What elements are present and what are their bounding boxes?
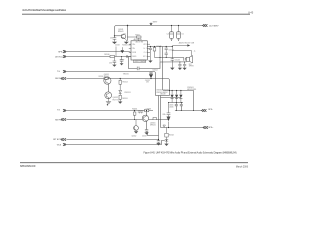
ground net symbol — [163, 125, 166, 127]
svg-text:R0561: R0561 — [132, 108, 137, 110]
ground — [183, 68, 187, 70]
transistor Q0531 — [121, 34, 126, 39]
capacitor C0536 — [113, 58, 117, 65]
transistor Q0552 — [105, 92, 112, 99]
wire bundle H2 — [156, 95, 170, 97]
header rule — [22, 13, 250, 15]
wire output bus right of U0531 — [147, 46, 172, 48]
wire stub — [115, 47, 117, 57]
svg-text:TG: TG — [57, 110, 60, 112]
transistor Q0561 — [142, 115, 148, 121]
svg-text:R0536: R0536 — [104, 54, 109, 56]
ground — [178, 68, 182, 70]
capacitor C0563 — [138, 111, 141, 114]
connector J2 pin row6 — [61, 118, 66, 121]
svg-text:J2-9 SB9V: J2-9 SB9V — [209, 25, 219, 27]
wire Q0551-Q0552 — [108, 85, 110, 92]
wire step from lower circuit — [148, 132, 159, 136]
svg-text:SPKR: SPKR — [189, 66, 195, 68]
connector J2 pin row5 — [63, 109, 66, 112]
svg-text:March 2006: March 2006 — [236, 166, 249, 169]
svg-text:VR0531: VR0531 — [123, 73, 129, 75]
diode CR0561 — [171, 91, 173, 103]
ground — [134, 131, 138, 133]
footer rule — [20, 162, 248, 164]
svg-text:Figure 8-45. UHF 403-470 MHz: Figure 8-45. UHF 403-470 MHz Audio PA an… — [144, 152, 237, 155]
svg-text:C5: C5 — [181, 34, 183, 36]
ground — [118, 102, 122, 104]
capacitor C0564 — [140, 111, 143, 114]
diode CR0562 — [176, 91, 178, 103]
svg-text:8-45: 8-45 — [248, 11, 253, 14]
capacitor C0569 — [165, 140, 168, 143]
ground — [106, 98, 111, 104]
svg-text:M9641: M9641 — [118, 31, 124, 33]
connector J2 pin row4 — [61, 77, 66, 80]
wire speaker feed rowA — [175, 110, 202, 112]
svg-text:C68+: C68+ — [162, 114, 166, 116]
svg-text:R0532 100K: R0532 100K — [122, 45, 132, 47]
capacitor C0542 — [165, 47, 168, 58]
resistor R0563 series — [145, 109, 149, 112]
svg-text:TG: TG — [57, 71, 60, 73]
svg-text:C0565: C0565 — [169, 105, 174, 107]
node SB9V tap — [150, 22, 152, 23]
svg-text:HDT751: HDT751 — [113, 99, 120, 101]
capacitor C0562 — [183, 62, 186, 68]
connector J2 pin row1 — [63, 50, 66, 53]
ground — [148, 61, 152, 63]
svg-text:C36: C36 — [109, 63, 112, 65]
svg-text:1 IN+: 1 IN+ — [132, 44, 136, 46]
svg-text:SB9V: SB9V — [153, 22, 158, 24]
wire row8 — [66, 141, 164, 145]
svg-text:J+: J+ — [194, 51, 196, 53]
wire pin stubs left U0531 — [129, 44, 131, 56]
svg-text:SPK-: SPK- — [208, 109, 213, 111]
wire Q0531 collector to rail and U0531 pin — [127, 26, 129, 41]
svg-text:C0566: C0566 — [169, 107, 174, 109]
wire diode bottom bus — [169, 102, 184, 104]
svg-text:4805218N59: 4805218N59 — [187, 89, 196, 91]
capacitor C0568 electrolytic — [167, 103, 171, 128]
capacitor C0561 — [178, 62, 181, 68]
svg-text:M9641: M9641 — [104, 76, 110, 78]
wire row2 — [66, 56, 131, 58]
svg-text:M9641: M9641 — [150, 124, 156, 126]
wire row6 — [66, 119, 168, 121]
diode CR0551 — [119, 90, 122, 93]
ground — [164, 144, 168, 146]
svg-text:CR0563 48052: CR0563 48052 — [156, 92, 167, 94]
wire row B to connector — [161, 127, 204, 129]
svg-text:C0563: C0563 — [146, 108, 151, 110]
capacitor C0566 — [180, 103, 183, 111]
transistor Q0562 — [134, 126, 139, 131]
wire Q0561 emitter — [146, 121, 148, 130]
node tap arrow on row1 — [121, 47, 123, 50]
wire Q0531 emitter — [125, 38, 127, 41]
wire pin stubs right U0531 — [147, 44, 150, 56]
IC U0531 audio PA box — [131, 41, 147, 60]
svg-text:C31: C31 — [110, 37, 113, 39]
U0531 label box — [134, 60, 146, 63]
svg-text:C0537: C0537 — [120, 59, 125, 61]
wire row3 — [66, 72, 155, 96]
wire row1 — [66, 51, 131, 54]
resistor R0531 — [137, 36, 141, 38]
svg-text:R0553: R0553 — [122, 98, 127, 100]
wire down from rail bus to lower bundle — [163, 47, 194, 111]
capacitor C0535 series on row2 — [126, 55, 127, 57]
capacitor C0534 — [178, 26, 180, 32]
wire speaker bottom — [160, 61, 186, 63]
node off-sheet arrow — [187, 44, 190, 46]
capacitor C0541 — [149, 47, 152, 61]
resistor R0562 series — [153, 118, 156, 120]
svg-text:R0552: R0552 — [123, 82, 128, 84]
ground — [124, 42, 129, 44]
svg-text:O+ 7: O+ 7 — [143, 48, 146, 50]
wire bus tap to off-sheet — [172, 45, 187, 47]
svg-text:UHF 1-25 W Circuit Board Schem: UHF 1-25 W Circuit Board Schematic Diagr… — [22, 8, 66, 12]
svg-text:R0551: R0551 — [99, 76, 104, 78]
svg-text:R0531: R0531 — [135, 35, 140, 37]
capacitor C0538 — [137, 67, 139, 71]
svg-text:AUDIO PA: AUDIO PA — [134, 38, 143, 41]
svg-text:C4: C4 — [166, 34, 168, 36]
wire base of Q0531 — [115, 35, 122, 37]
wire bundle H3 — [161, 96, 182, 98]
svg-text:1N4148: 1N4148 — [160, 94, 165, 96]
transistor Q0551 — [104, 77, 111, 84]
junction dots — [107, 25, 194, 141]
diode CR0563 — [180, 91, 182, 103]
resistor R0551 series — [104, 77, 108, 79]
wire vertical to C0570 — [158, 96, 160, 140]
ground — [112, 42, 117, 44]
connector J2 pin row8 — [63, 143, 66, 146]
svg-text:C0542: C0542 — [168, 49, 173, 51]
connector J2 right A — [202, 109, 207, 112]
wire speaker return top — [172, 51, 191, 57]
capacitor C0554 — [149, 72, 152, 75]
svg-text:AT VOL2: AT VOL2 — [55, 55, 64, 58]
wire row7 — [66, 139, 158, 141]
connector J2 pin row2 — [63, 55, 66, 58]
wire right branch — [119, 78, 121, 101]
labels: tiny component/signal texts — [53, 22, 219, 147]
svg-text:INT EXT: INT EXT — [53, 139, 61, 141]
svg-text:CR0551: CR0551 — [124, 92, 131, 94]
capacitor C0560 series — [184, 58, 185, 61]
wire row5 — [66, 110, 153, 112]
svg-text:R0564: R0564 — [169, 135, 174, 137]
connector J2 pin row3 — [63, 70, 66, 73]
svg-text:6881096C09: 6881096C09 — [20, 164, 36, 168]
connector J2 right B — [203, 126, 208, 129]
wire 9V rail — [115, 26, 203, 38]
svg-text:C0543: C0543 — [175, 59, 180, 61]
resistor R0552 — [119, 80, 121, 84]
svg-text:SB 9V: SB 9V — [55, 119, 61, 121]
wire row4 — [66, 79, 169, 96]
svg-text:Q0562: Q0562 — [132, 135, 137, 137]
capacitor C0565 — [175, 103, 178, 111]
svg-text:SPK+: SPK+ — [58, 51, 64, 53]
svg-text:C0553: C0553 — [145, 80, 150, 82]
svg-text:TX A: TX A — [56, 143, 61, 146]
resistor R0564 — [165, 133, 168, 137]
resistor R0541 — [154, 47, 156, 58]
wire vertical to speaker return — [160, 98, 162, 128]
svg-text:NC 5: NC 5 — [143, 56, 147, 58]
ground — [112, 65, 116, 67]
resistor R0536 — [110, 55, 115, 57]
speaker LS0551 internal — [186, 57, 189, 61]
wire column — [159, 47, 161, 63]
capacitor C0531 — [113, 38, 117, 42]
svg-text:CR0561: CR0561 — [187, 87, 194, 89]
capacitor C0567 — [145, 130, 148, 133]
capacitor C0543 — [171, 47, 174, 68]
wire Q0561 collector — [146, 111, 148, 116]
svg-text:VP 8: VP 8 — [143, 44, 146, 46]
capacitor C0533 — [171, 26, 173, 32]
ground — [156, 143, 160, 145]
svg-text:C0532: C0532 — [115, 45, 120, 47]
capacitor C0570 — [157, 140, 160, 144]
wire speaker top — [155, 57, 184, 59]
ground — [144, 132, 148, 134]
svg-text:2 IN-: 2 IN- — [132, 48, 136, 50]
ground — [170, 68, 174, 70]
wire column below rowB — [166, 127, 168, 143]
wire — [127, 37, 139, 41]
capacitor C0537 — [120, 57, 123, 64]
svg-text:O- 6: O- 6 — [144, 52, 147, 54]
svg-text:C0554: C0554 — [152, 70, 157, 72]
svg-text:SB 9V: SB 9V — [55, 78, 61, 80]
svg-text:C0567: C0567 — [142, 135, 147, 137]
ground — [120, 63, 124, 65]
resistor R0561 — [134, 111, 136, 120]
svg-text:R0541: R0541 — [156, 46, 161, 48]
resistor R0553 — [119, 95, 121, 99]
polarity arrow — [167, 117, 171, 122]
svg-text:AUDIO PA OUT 16R: AUDIO PA OUT 16R — [179, 41, 195, 44]
wire U0531 feedback loop — [129, 57, 161, 69]
svg-text:SPK+: SPK+ — [208, 127, 214, 129]
connector J2 pin row7 — [61, 138, 66, 141]
connector J2 rail right — [203, 24, 208, 27]
